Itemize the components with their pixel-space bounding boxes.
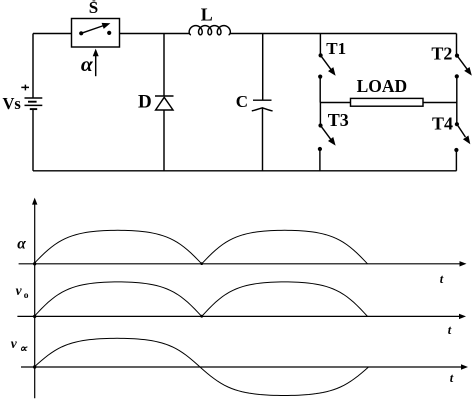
wire bottom rail — [33, 170, 457, 172]
svg-text:D: D — [138, 91, 152, 112]
capacitor C bottom curved plate — [252, 108, 273, 111]
inductor L — [189, 26, 230, 35]
junction blob at waveform 1 origin — [33, 262, 36, 265]
switch T3 blade with arrowhead — [321, 126, 332, 140]
switch T4 blade with arrowhead — [457, 124, 466, 137]
junction blob at waveform 1 cusp — [200, 262, 203, 265]
wire right leg to mid rail — [456, 76, 458, 102]
waveform 3 positive hump — [34, 338, 200, 367]
svg-text:∝: ∝ — [19, 343, 28, 355]
waveform 2 baseline (vo) with arrow — [17, 315, 460, 317]
svg-text:L: L — [201, 5, 213, 25]
svg-text:v: v — [16, 283, 23, 298]
wire top rail (switch box to inductor) — [120, 33, 190, 35]
LOAD resistor box — [351, 98, 424, 106]
waveform 1 hump 2 — [202, 230, 368, 263]
battery Vs — [25, 98, 43, 109]
stray mark above S (scan remnant) — [93, 0, 96, 2]
waveform vertical axis — [34, 204, 36, 398]
wire left inverter leg top — [319, 34, 321, 56]
svg-text:S: S — [89, 0, 98, 17]
svg-text:v: v — [11, 336, 18, 351]
svg-text:t: t — [450, 371, 454, 385]
switch T1 top dot — [319, 53, 323, 57]
switch T4 top dot — [455, 122, 459, 126]
wire capacitor branch bottom — [262, 108, 264, 171]
waveform 1 baseline (alpha) with arrow — [19, 263, 461, 265]
wire diode branch top — [163, 34, 165, 97]
svg-text:T1: T1 — [326, 39, 346, 58]
switch T2 blade with arrowhead — [457, 56, 467, 70]
wire T4 to bottom rail — [455, 150, 457, 171]
capacitor C top plate — [253, 99, 272, 101]
wire right inverter leg top — [456, 34, 458, 56]
switch T1 blade with arrowhead — [321, 55, 332, 69]
waveform 1 hump 1 — [34, 230, 202, 263]
svg-text:t: t — [440, 272, 444, 286]
wire left rail (battery to bottom rail) — [32, 110, 34, 171]
waveform 2 hump 2 — [202, 282, 368, 317]
svg-text:Vs: Vs — [3, 94, 22, 113]
switch T2 top dot — [455, 54, 459, 58]
junction blob at waveform 2 cusp — [200, 315, 203, 318]
svg-text:C: C — [236, 92, 248, 111]
svg-text:T3: T3 — [328, 110, 349, 130]
wire left rail (top corner down to battery) — [32, 34, 34, 98]
wire left leg to mid rail — [319, 77, 321, 103]
switch T2 bottom dot — [455, 74, 459, 78]
switch T3 bottom dot — [318, 147, 322, 151]
switch box S — [72, 19, 120, 48]
switch T4 bottom dot — [454, 148, 458, 152]
wire capacitor branch top — [262, 34, 264, 101]
wire mid rail to T4 — [456, 103, 458, 125]
diode D (cathode bar) — [155, 95, 174, 97]
switch S right contact dot — [107, 31, 111, 35]
wire diode branch bottom — [163, 110, 165, 171]
battery plus sign — [21, 85, 29, 91]
switch S left contact dot — [79, 31, 83, 35]
alpha control arrow into switch — [95, 56, 97, 76]
diode D (triangle) — [156, 97, 173, 110]
svg-text:α: α — [81, 52, 94, 76]
svg-text:LOAD: LOAD — [357, 76, 408, 96]
wire mid rail right — [423, 102, 457, 104]
switch T1 bottom dot — [318, 75, 322, 79]
switch T3 top dot — [318, 123, 322, 127]
svg-text:t: t — [448, 323, 452, 337]
wire top rail left (battery to switch box) — [33, 33, 72, 35]
junction blob at waveform 3 origin — [33, 365, 36, 368]
wire mid rail to T3 — [319, 103, 321, 126]
waveform 3 negative hump — [200, 367, 369, 396]
svg-text:T4: T4 — [432, 114, 453, 134]
junction blob at waveform 2 origin — [33, 315, 36, 318]
svg-text:o: o — [24, 291, 29, 301]
waveform 3 baseline (vac) with arrow — [21, 366, 462, 368]
wire mid rail left — [320, 102, 350, 104]
switch S blade with arrowhead — [81, 26, 104, 34]
svg-text:α: α — [17, 235, 26, 252]
wire top rail (inductor to right leg) — [230, 33, 457, 35]
svg-text:T2: T2 — [431, 44, 452, 64]
wire T3 to bottom rail — [319, 149, 321, 171]
waveform 2 hump 1 — [34, 282, 202, 317]
